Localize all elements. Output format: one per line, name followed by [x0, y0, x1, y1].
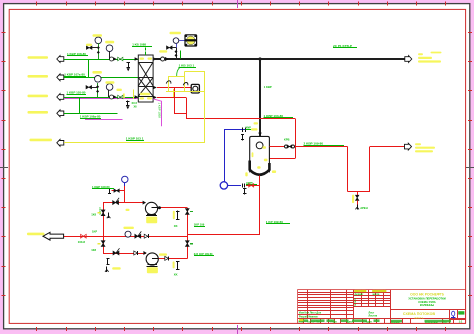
loop right header: [187, 208, 189, 259]
connector arrow line4: [57, 110, 64, 117]
instrument bubble TI-1: [106, 45, 113, 52]
svg-text:формат: формат: [355, 293, 365, 296]
red jumper: [174, 113, 186, 115]
svg-text:XK: XK: [174, 273, 178, 277]
stem PI-1: [98, 43, 100, 59]
pipe line1-line2 jumper: [88, 59, 90, 77]
middle check valve: [144, 234, 148, 238]
pump P-1A: [92, 201, 466, 324]
vessel V-1 shell: [250, 136, 270, 172]
inline valve: [285, 145, 288, 148]
blower box U-1: [185, 35, 197, 46]
valve red: [249, 184, 252, 187]
svg-text:KPB: KPB: [284, 138, 290, 142]
relief symbol 2: [183, 83, 188, 86]
svg-text:Листов: Листов: [369, 315, 378, 318]
connector arrow line1: [57, 56, 64, 63]
border tick marks: [36, 2, 38, 6]
level pot: [220, 182, 227, 189]
drain I upper: [242, 134, 244, 141]
valve green line1: [118, 57, 121, 61]
yellow lower run: [166, 91, 205, 93]
svg-text:CXEMA ПOTOKOB: CXEMA ПOTOKOB: [403, 312, 436, 316]
green stub right: [180, 51, 182, 59]
connector arrow line5 (tracing): [57, 139, 64, 146]
magenta tracing stub: [153, 99, 161, 126]
right header drain I 2: [177, 261, 179, 270]
inline fitting line1: [110, 57, 114, 61]
main out labels: [418, 53, 423, 55]
blue level loop: [224, 129, 247, 131]
line4 magenta tracing: [85, 119, 123, 121]
outlet big arrow: [43, 232, 64, 240]
inline reducer: [161, 57, 165, 61]
svg-text:1:1: 1:1: [459, 320, 463, 324]
middle instrument: [125, 231, 131, 237]
pipe line3: [64, 97, 139, 99]
hand valve: [167, 46, 170, 49]
svg-text:1 KB 1088: 1 KB 1088: [132, 42, 146, 46]
red header to vessel: [186, 118, 295, 120]
svg-text:2 KBP 109-80: 2 KBP 109-80: [304, 141, 324, 145]
svg-text:масса: масса: [373, 294, 381, 296]
svg-text:1 KBP 1058: 1 KBP 1058: [157, 103, 161, 119]
svg-text:XNP: XNP: [246, 125, 252, 129]
drain I lower: [244, 188, 246, 194]
middle run gate valve: [135, 234, 138, 238]
junction dot: [258, 57, 261, 60]
connector arrow product out: [405, 143, 412, 150]
vessel internal yellow marks: [252, 152, 254, 157]
loop bottom-left drains: [107, 258, 109, 265]
pump P-1B: [92, 209, 466, 324]
main vapour line: [153, 58, 404, 60]
pipe line1: [64, 59, 139, 61]
pipe line4 riser: [79, 97, 81, 113]
loop bottom run: [103, 253, 146, 255]
label yellow: [93, 34, 103, 37]
svg-text:1KP: 1KP: [92, 230, 97, 234]
loop left header: [103, 203, 105, 253]
red pipe E1 to box: [157, 87, 192, 89]
top run gate valve: [113, 201, 116, 205]
left header valve 2: [101, 241, 105, 244]
red pipe to pumps: [187, 234, 259, 236]
vessel dished bottom: [250, 161, 270, 175]
fitting II lower: [242, 183, 244, 187]
title block: [298, 290, 466, 324]
instrument bubble TI-3: [106, 84, 113, 91]
feed drop to vessel: [259, 59, 261, 137]
relief symbol 1: [166, 81, 171, 84]
drain Y 1: [108, 213, 110, 219]
red product line: [269, 146, 347, 148]
right header valve 2: [185, 241, 189, 244]
red riser a: [174, 88, 176, 114]
heat exchanger E-1: [138, 55, 153, 102]
valve hand V-b: [86, 86, 89, 89]
vent branch: [124, 186, 126, 203]
red pipe E1 lower: [157, 97, 186, 99]
yellow stub left of E-1: [133, 90, 135, 100]
U seal: [347, 147, 349, 192]
valve green line3: [118, 95, 121, 99]
svg-text:Разраб Иванов: Разраб Иванов: [299, 315, 318, 318]
scale cell green: [458, 311, 464, 314]
bottom check valve: [134, 251, 138, 255]
fitting II upper: [242, 128, 244, 132]
connector arrow line3: [57, 94, 64, 101]
drain line1: [128, 62, 130, 67]
stream label L5: [30, 139, 53, 142]
yellow left jacket: [168, 76, 170, 91]
centering marks: [237, 0, 239, 8]
E-1 port arrows: [135, 57, 139, 61]
red riser b: [186, 97, 188, 119]
instrument bubble PI-3: [95, 76, 102, 83]
vessel outlet: [259, 175, 261, 234]
projection symbol: [452, 311, 455, 316]
pipe line3 tracing (magenta): [64, 98, 139, 100]
pipe line2: [64, 77, 139, 79]
svg-text:1X8: 1X8: [91, 212, 96, 216]
svg-text:XK: XK: [174, 224, 178, 228]
svg-text:1 KBP 107a-80: 1 KBP 107a-80: [64, 72, 85, 76]
loop middle run: [64, 236, 188, 238]
bottom run gate valve: [113, 251, 116, 255]
red stub into vessel bottom line: [246, 185, 260, 187]
instrument bubble PIC: [170, 32, 182, 34]
svg-text:APEH: APEH: [360, 206, 368, 210]
inline fitting line3: [110, 95, 114, 99]
stream label L3: [28, 95, 49, 98]
svg-text:XKPB: XKPB: [98, 207, 102, 215]
pipe line4: [64, 113, 118, 115]
yellow vert at riser: [173, 89, 175, 97]
box with circle symbol: [191, 84, 199, 93]
right header drain I 1: [177, 210, 179, 220]
product out labels: [415, 143, 421, 145]
left header valve 1: [101, 210, 105, 213]
P-1B discharge check: [165, 256, 169, 260]
loop top run: [103, 202, 146, 204]
svg-text:Изм Кол Лист Док: Изм Кол Лист Док: [299, 312, 322, 315]
svg-text:1X8: 1X8: [91, 248, 96, 252]
outlet valve: [81, 234, 84, 238]
svg-text:103-8: 103-8: [78, 240, 86, 244]
stem to main line: [176, 43, 178, 47]
U seal drain: [357, 191, 359, 195]
connector arrow main out: [405, 56, 412, 63]
stream label L2: [28, 75, 49, 78]
connector arrow line2: [57, 74, 64, 81]
signal line: [179, 40, 185, 42]
vent instrument bubble: [124, 183, 126, 186]
E-1 top green stub: [145, 48, 147, 51]
right header valve 1: [185, 209, 189, 212]
stream label L1: [28, 56, 49, 59]
svg-text:OOO HK POCHEФTb: OOO HK POCHEФTb: [410, 292, 444, 296]
svg-text:1 KBP: 1 KBP: [264, 85, 272, 89]
drain line3: [127, 100, 129, 105]
yellow tracing main run: [64, 142, 205, 144]
valve hand V-a: [86, 46, 89, 49]
svg-text:КОЛОННЫ: КОЛОННЫ: [420, 303, 435, 307]
stream label L4: [28, 111, 49, 114]
bottom strip green cells: [299, 319, 308, 322]
svg-text:1 KBP 105-80: 1 KBP 105-80: [67, 90, 86, 94]
svg-text:ЛИCT 1: ЛИCT 1: [414, 316, 424, 320]
vessel manway circle: [256, 142, 263, 149]
instrument bubble PI-1: [95, 37, 102, 44]
